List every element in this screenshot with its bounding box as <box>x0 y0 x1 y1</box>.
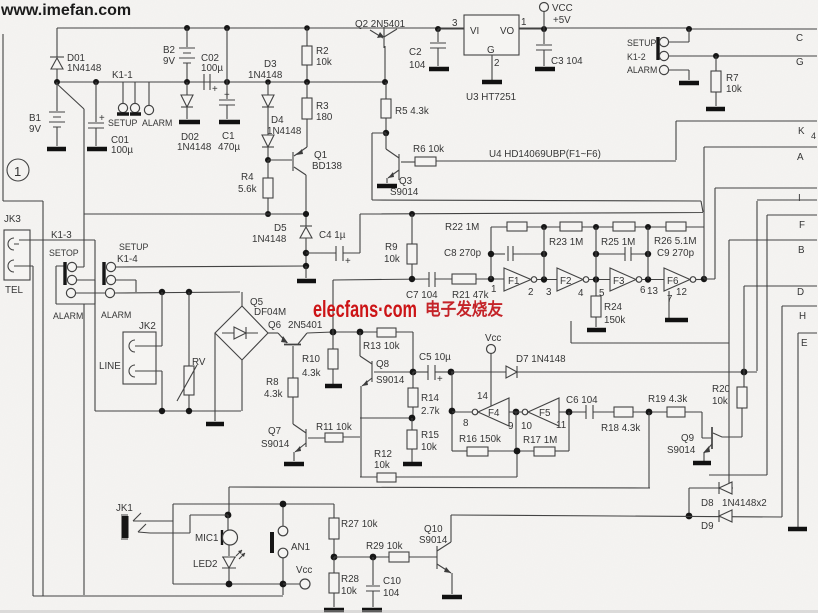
svg-text:9: 9 <box>508 421 513 432</box>
node C9 left <box>593 251 599 257</box>
svg-text:SETUP: SETUP <box>119 242 148 252</box>
wire JK3 tip contact to relay <box>19 240 95 411</box>
terminal F stub <box>767 214 817 216</box>
microphone MIC1 <box>195 515 238 556</box>
svg-text:10k: 10k <box>384 254 400 265</box>
diode D5 <box>252 214 312 266</box>
svg-text:B2: B2 <box>163 45 175 56</box>
svg-text:10k: 10k <box>316 57 332 68</box>
svg-text:F2: F2 <box>560 276 571 287</box>
svg-text:R5 4.3k: R5 4.3k <box>395 106 429 117</box>
svg-text:LINE: LINE <box>99 361 121 372</box>
ground under F6 pin7 <box>665 318 688 323</box>
svg-text:100µ: 100µ <box>111 145 133 156</box>
wire JK3 ring contact down <box>19 266 33 596</box>
svg-text:2: 2 <box>494 58 499 69</box>
resistor R4 <box>238 160 273 214</box>
svg-text:150k: 150k <box>604 315 625 326</box>
ground under Q9 <box>693 461 711 466</box>
wire D8 line <box>689 487 733 489</box>
node F1 input <box>488 276 494 282</box>
node Q1 collector on rail <box>303 211 309 217</box>
resistor R8 <box>264 377 298 424</box>
svg-text:R20: R20 <box>712 384 731 395</box>
resistor R17 <box>523 435 569 456</box>
svg-text:ALARM: ALARM <box>101 310 131 320</box>
relay K1-3 <box>49 230 106 321</box>
svg-text:10k: 10k <box>341 586 357 597</box>
svg-text:R8: R8 <box>266 377 279 388</box>
node pin9/10 <box>513 409 520 416</box>
node rail F2 out <box>593 224 599 230</box>
svg-text:A: A <box>797 152 804 163</box>
node D5 low <box>303 263 309 269</box>
wire F1 input riser <box>490 227 492 279</box>
wire bottom left <box>33 595 283 597</box>
regulator U3 HT7251 <box>452 15 526 103</box>
varistor RV <box>177 292 206 411</box>
wire JK2 bottom contact <box>140 371 162 411</box>
svg-text:4: 4 <box>578 288 584 299</box>
svg-text:S9014: S9014 <box>390 187 419 198</box>
svg-text:Q7: Q7 <box>268 426 281 437</box>
node R14/R15 <box>409 415 416 422</box>
svg-text:K1-1: K1-1 <box>112 70 133 81</box>
svg-text:R23 1M: R23 1M <box>549 237 583 248</box>
svg-text:5.6k: 5.6k <box>238 184 257 195</box>
resistor R11 <box>316 422 360 442</box>
svg-text:C: C <box>796 33 803 44</box>
resistor R24 <box>591 279 625 327</box>
svg-text:JK1: JK1 <box>116 503 133 514</box>
power Vcc bottom <box>283 565 312 589</box>
resistor R6 <box>413 144 444 166</box>
svg-text:Q8: Q8 <box>376 359 390 370</box>
resistor R14 <box>408 372 440 418</box>
svg-text:ALARM: ALARM <box>53 311 83 321</box>
svg-text:C2: C2 <box>409 47 422 58</box>
capacitor C6 <box>566 395 614 419</box>
resistor R18 <box>601 407 667 434</box>
ground under C3 <box>535 67 555 72</box>
inverter F3 <box>599 268 664 299</box>
node F2 out riser <box>593 276 599 282</box>
svg-text:7: 7 <box>667 294 672 305</box>
transistor Q3 S9014 <box>386 133 419 198</box>
node junction C1 <box>224 25 230 31</box>
resistor R13 <box>363 328 413 372</box>
resistor R10 <box>302 332 338 384</box>
svg-text:U3 HT7251: U3 HT7251 <box>466 92 516 103</box>
wire base bus y=557 <box>334 556 389 558</box>
ground under B1 <box>47 147 66 152</box>
wire Q1 base lead <box>268 159 292 161</box>
resistor R29 <box>366 541 437 562</box>
capacitor C01 <box>88 82 133 156</box>
svg-text:R28: R28 <box>341 574 360 585</box>
node junction B2 <box>184 25 190 31</box>
svg-text:3: 3 <box>546 287 552 298</box>
svg-text:S9014: S9014 <box>261 439 290 450</box>
svg-text:电子发烧友: 电子发烧友 <box>425 299 503 319</box>
wire A riser to F6 out <box>703 147 705 279</box>
wire K1-1 arm <box>56 83 84 240</box>
node junction D02 <box>184 79 190 85</box>
resistor R2 <box>302 25 332 82</box>
svg-text:JK2: JK2 <box>139 321 156 332</box>
capacitor C2 <box>409 29 446 71</box>
node F1 out riser <box>541 276 547 282</box>
wire Q6 rail y=332 <box>307 332 377 333</box>
svg-text:U4 HD14069UBP(F1~F6): U4 HD14069UBP(F1~F6) <box>489 149 601 160</box>
svg-text:1N4148: 1N4148 <box>177 142 212 153</box>
svg-text:11: 11 <box>556 420 566 431</box>
wire R6 to K terminal riser <box>436 121 676 161</box>
svg-text:D5: D5 <box>274 223 287 234</box>
power Vcc above F4 <box>477 333 501 406</box>
wire F riser to D8 <box>709 215 767 475</box>
node junction C01 <box>93 79 99 85</box>
svg-text:R16 150k: R16 150k <box>459 434 501 445</box>
inverter F2 <box>546 268 610 299</box>
relay K1-1 contacts <box>108 70 172 128</box>
svg-text:R2: R2 <box>316 46 329 57</box>
svg-text:H: H <box>799 311 806 322</box>
resistor R28 <box>329 557 360 607</box>
node rail F3 out <box>645 224 651 230</box>
inverter F5 <box>521 398 586 432</box>
svg-text:4.3k: 4.3k <box>264 389 283 400</box>
stub unlabeled y=200 <box>757 199 817 201</box>
svg-text:VI: VI <box>470 26 479 37</box>
svg-text:R25 1M: R25 1M <box>601 237 635 248</box>
node R9 top on rail <box>409 211 415 217</box>
capacitor C1 <box>218 82 240 153</box>
power VCC +5V <box>540 3 573 30</box>
svg-text:Q6: Q6 <box>268 320 282 331</box>
svg-text:Q10: Q10 <box>424 524 443 535</box>
terminal D stub <box>744 285 817 287</box>
diode D4 <box>262 115 302 160</box>
wire C8 row <box>491 253 505 255</box>
node C5/R14 <box>410 369 417 376</box>
wire D8 to D9 drop <box>688 488 690 516</box>
svg-text:9V: 9V <box>29 124 41 135</box>
svg-text:1N4148: 1N4148 <box>248 70 283 81</box>
svg-text:B1: B1 <box>29 113 41 124</box>
svg-text:C8 270p: C8 270p <box>444 248 482 259</box>
button AN1 <box>272 504 310 595</box>
svg-text:R29 10k: R29 10k <box>366 541 403 552</box>
wire I riser <box>704 188 715 279</box>
svg-text:R10: R10 <box>302 354 321 365</box>
wire mic box left <box>172 504 174 584</box>
diode D9 <box>701 510 732 532</box>
node R9 bottom <box>409 276 415 282</box>
svg-text:10k: 10k <box>726 84 742 95</box>
svg-text:R15: R15 <box>421 430 440 441</box>
svg-text:D4: D4 <box>271 115 284 126</box>
svg-text:C5 10µ: C5 10µ <box>419 352 451 363</box>
capacitor C7 <box>406 272 452 301</box>
wire JK1 tip to box <box>152 520 173 522</box>
ground under R15 <box>403 462 422 467</box>
node F5 in / C6 <box>566 409 573 416</box>
node mic top junction <box>225 512 232 519</box>
svg-text:R7: R7 <box>726 73 739 84</box>
capacitor C10 <box>366 557 402 607</box>
svg-text:R6 10k: R6 10k <box>413 144 444 155</box>
svg-text:elecfans·com: elecfans·com <box>313 296 417 322</box>
wire feedback from R18/R19 node <box>229 412 650 488</box>
svg-text:D9: D9 <box>701 521 714 532</box>
svg-text:C4 1µ: C4 1µ <box>319 230 346 241</box>
transistor Q6 2N5401 <box>268 320 322 378</box>
svg-text:R12: R12 <box>374 449 392 460</box>
svg-text:R4: R4 <box>241 172 254 183</box>
capacitor C4 <box>306 230 360 267</box>
node junction D01/B1 <box>54 79 60 85</box>
svg-text:D: D <box>797 287 804 298</box>
node R2/R3 <box>304 79 310 85</box>
svg-text:TEL: TEL <box>5 285 24 296</box>
svg-text:180: 180 <box>316 112 333 123</box>
svg-text:+: + <box>437 374 443 385</box>
svg-text:I: I <box>798 193 801 204</box>
wire JK1 ring to mic <box>150 515 228 533</box>
resistor R16 <box>452 434 534 456</box>
svg-text:K1-2: K1-2 <box>627 52 646 62</box>
wire Q8 emitter rail <box>360 417 412 419</box>
inverter F1 <box>491 268 557 298</box>
wire Q3 base to R6 <box>401 161 415 163</box>
svg-text:Q9: Q9 <box>681 433 694 444</box>
svg-text:Vcc: Vcc <box>296 565 312 576</box>
svg-text:R18 4.3k: R18 4.3k <box>601 423 640 434</box>
svg-text:13: 13 <box>647 286 658 297</box>
resistor R25 <box>601 222 635 248</box>
svg-text:F: F <box>799 220 805 231</box>
diode D8 <box>701 482 767 509</box>
resistor R23 <box>549 222 583 248</box>
svg-text:Vcc: Vcc <box>485 333 501 344</box>
scan noise texture <box>0 0 1 1</box>
terminal E stub <box>798 332 817 334</box>
wire bottom bus y=411 <box>95 410 241 412</box>
resistor R21 <box>452 274 504 301</box>
ground under R10 <box>325 384 342 389</box>
node R27/R28 <box>331 554 338 561</box>
node C9 right <box>645 251 651 257</box>
resistor R26 <box>654 222 696 247</box>
svg-text:104: 104 <box>409 60 426 71</box>
resistor R9 <box>384 214 417 279</box>
ground under bridge <box>206 422 224 427</box>
svg-text:6: 6 <box>640 285 646 296</box>
svg-text:S9014: S9014 <box>667 445 696 456</box>
ground under Q3 <box>377 184 397 189</box>
svg-text:G: G <box>487 45 495 56</box>
node C8 left <box>488 251 494 257</box>
svg-text:LED2: LED2 <box>193 559 218 570</box>
connector JK2 <box>99 321 156 384</box>
wire rail y=214 left <box>84 213 306 215</box>
svg-text:F6: F6 <box>667 276 679 287</box>
battery B1 <box>29 82 65 146</box>
wire vcc/led bus y=584 <box>173 583 301 585</box>
resistor R27 <box>329 504 378 557</box>
node R20 top <box>741 369 748 376</box>
svg-text:F5: F5 <box>539 408 551 419</box>
node R7 top <box>713 53 719 59</box>
svg-text:C10: C10 <box>383 576 402 587</box>
connector JK1 <box>116 503 152 539</box>
wire VI gap <box>438 28 464 30</box>
relay K1-2 contacts <box>627 29 817 80</box>
wire mic box top <box>173 503 334 505</box>
ground under D5 <box>297 279 316 284</box>
node bus y=82 <box>57 81 385 83</box>
relay K1-4 <box>101 242 306 320</box>
svg-text:R11 10k: R11 10k <box>316 422 352 433</box>
node R5 bottom <box>383 130 389 136</box>
node R16/R17 <box>514 448 521 455</box>
node D5 top <box>303 211 309 217</box>
wire D3 column from bus <box>265 79 271 85</box>
svg-text:VCC: VCC <box>552 3 573 14</box>
svg-text:R19 4.3k: R19 4.3k <box>648 394 687 405</box>
ground under D02 <box>179 120 200 125</box>
svg-text:S9014: S9014 <box>419 535 448 546</box>
node C8 right <box>541 251 547 257</box>
svg-text:+: + <box>224 90 230 101</box>
svg-text:12: 12 <box>676 287 687 298</box>
svg-text:470µ: 470µ <box>218 142 240 153</box>
svg-text:2.7k: 2.7k <box>421 406 440 417</box>
transistor Q8 S9014 <box>360 332 413 477</box>
svg-text:K1-4: K1-4 <box>117 254 138 265</box>
node F6 out <box>701 276 707 282</box>
mark circled 1 <box>7 159 29 181</box>
node F3 out <box>645 276 651 282</box>
svg-text:3: 3 <box>452 18 458 29</box>
svg-text:F1: F1 <box>508 276 519 287</box>
node D9 junction <box>686 513 693 520</box>
ground under E riser <box>788 527 807 532</box>
svg-text:R17 1M: R17 1M <box>523 435 557 446</box>
svg-text:R13 10k: R13 10k <box>363 341 400 352</box>
svg-text:R14: R14 <box>421 393 440 404</box>
svg-text:R26 5.1M: R26 5.1M <box>654 236 696 247</box>
wire JK2 top contact <box>140 292 162 346</box>
terminal K stub <box>676 120 817 122</box>
ground under C10 <box>362 608 382 613</box>
svg-text:4.3k: 4.3k <box>302 368 321 379</box>
ground under Q7 <box>284 462 304 467</box>
svg-text:100µ: 100µ <box>201 63 223 74</box>
svg-text:1: 1 <box>14 164 21 179</box>
node LED2 bottom <box>226 581 233 588</box>
svg-text:C6 104: C6 104 <box>566 395 598 406</box>
node Q2 collector <box>382 79 388 85</box>
node R4 on rail <box>265 211 271 217</box>
svg-text:104: 104 <box>383 588 400 599</box>
svg-text:+: + <box>212 84 218 95</box>
ground under R24 <box>587 328 606 333</box>
svg-text:MIC1: MIC1 <box>195 533 218 544</box>
node D4/R4/Q1 base <box>265 157 271 163</box>
svg-text:D7 1N4148: D7 1N4148 <box>516 354 566 365</box>
wire C1 column <box>226 28 228 82</box>
svg-text:Q2 2N5401: Q2 2N5401 <box>355 19 405 30</box>
svg-text:C3 104: C3 104 <box>551 56 583 67</box>
resistor R22 <box>445 222 527 233</box>
svg-text:C9 270p: C9 270p <box>657 248 695 259</box>
terminal I stub <box>715 187 817 189</box>
node C2 top <box>435 26 441 32</box>
svg-text:R27 10k: R27 10k <box>341 519 378 530</box>
wire D8 feed path <box>571 240 729 483</box>
connector JK3 <box>4 214 30 296</box>
ground under C01 <box>87 147 107 152</box>
led LED2 <box>193 550 245 584</box>
ground under U3 G pin <box>482 80 502 85</box>
terminal A stub <box>704 146 817 148</box>
capacitor C9 <box>596 247 695 261</box>
resistor R20 <box>712 372 747 408</box>
wire rail VO to C terminal <box>689 28 817 30</box>
wire D9/Q10 line <box>451 515 782 517</box>
svg-text:VO: VO <box>500 26 515 37</box>
svg-text:DF04M: DF04M <box>254 307 286 318</box>
node K1-2 feed <box>686 26 692 32</box>
battery B2 <box>163 28 195 82</box>
svg-text:10k: 10k <box>421 442 437 453</box>
wire top rail y=28 <box>57 27 689 29</box>
transistor Q10 S9014 <box>419 515 452 594</box>
diode D01 <box>50 53 102 82</box>
svg-text:AN1: AN1 <box>291 542 310 553</box>
svg-text:SETOP: SETOP <box>49 248 79 258</box>
svg-text:G: G <box>796 57 804 68</box>
svg-text:2: 2 <box>528 287 533 298</box>
inverter F4 <box>452 398 513 432</box>
node Q8 collector <box>357 329 364 336</box>
svg-text:R3: R3 <box>316 101 329 112</box>
capacitor C5 <box>413 352 451 385</box>
diode D3 <box>248 59 283 135</box>
terminal H stub <box>782 305 817 307</box>
node R18/R19 <box>646 409 653 416</box>
ground under R28 <box>324 608 344 613</box>
node D5 mid C4 <box>303 250 309 256</box>
wire left drop to D01 <box>56 28 58 57</box>
svg-text:C1: C1 <box>222 131 235 142</box>
svg-text:Q1: Q1 <box>314 150 327 161</box>
transistor Q1 BD138 <box>293 147 343 214</box>
wire E riser to ground <box>797 333 799 527</box>
svg-text:BD138: BD138 <box>312 161 343 172</box>
svg-text:8: 8 <box>463 418 469 429</box>
node C10 tap <box>370 554 377 561</box>
capacitor C02 on bus <box>193 53 223 95</box>
svg-text:10k: 10k <box>712 396 728 407</box>
svg-text:R9: R9 <box>385 242 398 253</box>
transistor Q9 S9014 <box>667 408 742 461</box>
resistor R5 <box>381 82 429 133</box>
terminal B stub <box>729 239 817 241</box>
wire audio takeoff riser <box>333 280 336 332</box>
